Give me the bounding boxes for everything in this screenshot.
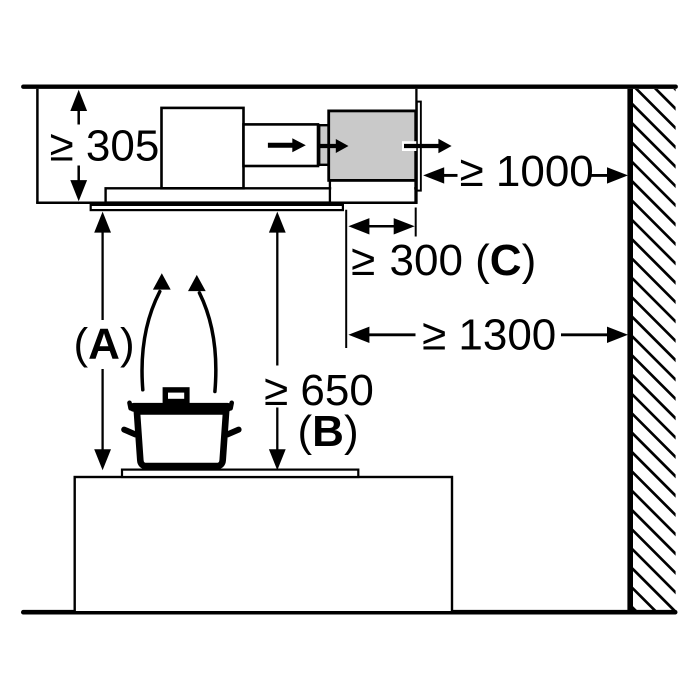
- svg-text:≥ 1000: ≥ 1000: [460, 147, 594, 196]
- svg-text:(A): (A): [74, 320, 135, 369]
- svg-text:≥ 1300: ≥ 1300: [422, 311, 556, 360]
- svg-text:(B): (B): [298, 407, 359, 456]
- svg-text:≥: ≥: [351, 236, 375, 285]
- svg-text:≥ 305: ≥ 305: [50, 122, 160, 171]
- svg-text:300 (C): 300 (C): [390, 236, 537, 285]
